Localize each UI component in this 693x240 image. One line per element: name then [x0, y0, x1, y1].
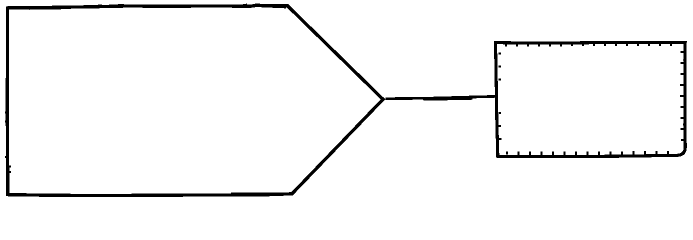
- connector doubled stroke: [424, 99, 472, 100]
- rectangle inner ticks: bottom: [507, 151, 668, 155]
- small rectangle: [496, 43, 686, 157]
- pentagon tag shape: [7, 5, 383, 195]
- pentagon top edge left blob: [30, 8, 60, 10]
- pentagon bottom edge doubled stroke: [232, 192, 289, 194]
- rectangle inner ticks: right: [680, 52, 684, 140]
- pentagon top edge bumps: [96, 4, 273, 5]
- rectangle inner ticks: left: [498, 54, 501, 140]
- connector wire: [387, 96, 495, 98]
- pentagon left edge nubs: [6, 113, 10, 173]
- pentagon top edge doubled stroke: [214, 6, 285, 7]
- rectangle inner ticks: top: [506, 44, 671, 47]
